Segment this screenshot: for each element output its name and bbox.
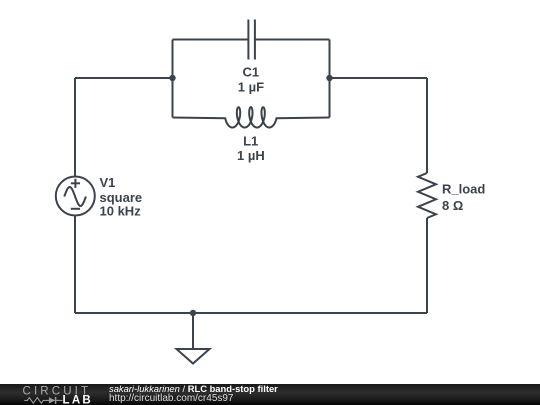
capacitor C1 <box>248 20 255 60</box>
wire top branch left of C1 <box>173 39 249 41</box>
svg-text:L1: L1 <box>243 133 258 148</box>
logo resistor glyph <box>24 398 49 404</box>
svg-text:LAB: LAB <box>63 395 94 405</box>
svg-text:8 Ω: 8 Ω <box>442 198 463 213</box>
label R_load value <box>442 182 485 213</box>
wire mid horizontal from tank right node to R_load branch <box>330 77 428 79</box>
wire bottom rail <box>75 312 427 314</box>
svg-text:R_load: R_load <box>442 182 485 197</box>
label C1 value <box>238 65 264 95</box>
wire top branch right of C1 <box>255 39 330 41</box>
wire right vertical upper (to R_load) <box>426 78 428 173</box>
svg-text:C1: C1 <box>242 65 259 80</box>
wire right vertical lower (R_load to bottom rail) <box>426 218 428 313</box>
node junction dot ground tap <box>190 310 196 316</box>
label L1 value <box>237 133 265 163</box>
CircuitLab logo <box>0 384 100 405</box>
voltage source V1 <box>56 177 95 216</box>
wire tank right vertical <box>329 40 331 118</box>
node junction dot right tank <box>326 75 332 81</box>
footer title text <box>109 384 278 394</box>
svg-text:1 µF: 1 µF <box>238 80 264 95</box>
logo diode glyph <box>49 397 63 404</box>
footer url text <box>109 394 234 404</box>
ground <box>177 313 210 364</box>
wire left vertical upper (node A to V1 +) <box>74 78 76 177</box>
wire tank left vertical <box>172 40 174 118</box>
wire left vertical lower (V1 - to bottom rail) <box>74 216 76 314</box>
label V1 value <box>100 175 143 219</box>
footer bar <box>0 384 540 405</box>
wire top-left horizontal from V1 branch to tank left node <box>75 77 173 79</box>
node junction dot left tank <box>169 75 175 81</box>
svg-text:10 kHz: 10 kHz <box>100 204 142 219</box>
inductor L1 <box>173 107 330 127</box>
svg-text:V1: V1 <box>100 175 116 190</box>
svg-text:1 µH: 1 µH <box>237 148 265 163</box>
resistor R_load <box>418 173 436 218</box>
